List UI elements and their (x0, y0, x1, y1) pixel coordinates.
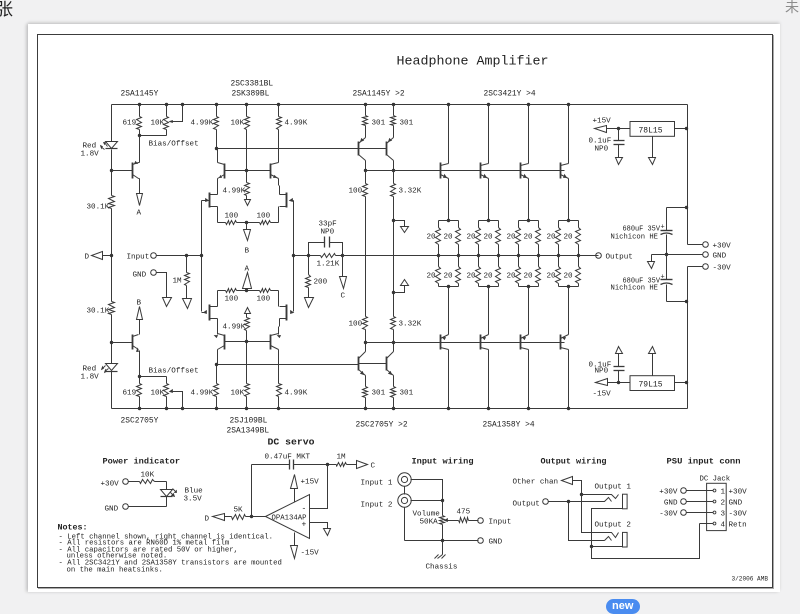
svg-text:Power indicator: Power indicator (103, 457, 181, 467)
resistor 301 #2 (top) (393, 105, 395, 116)
transistor Q2 2SC2705Y (bottom left) (132, 335, 134, 350)
svg-text:-30V: -30V (729, 511, 748, 519)
svg-text:3.5V: 3.5V (184, 496, 203, 504)
svg-text:1: 1 (721, 489, 726, 497)
resistor 10K (power ind) (129, 481, 140, 483)
node on rail: output col 1 top (447, 103, 450, 106)
svg-text:3: 3 (721, 511, 726, 519)
RCA jack 2 (398, 494, 411, 507)
DC jack pin 3 (-30V) (713, 511, 716, 514)
svg-text:1.8V: 1.8V (81, 151, 100, 159)
resistor 200 (to gnd) (308, 256, 310, 275)
transistor 2SA1145Y #1 (pre-driver top) (358, 142, 360, 156)
LED D2 Red 1.8V (bottom) (106, 364, 118, 371)
svg-text:Output wiring: Output wiring (541, 457, 607, 467)
svg-text:20: 20 (524, 234, 534, 242)
svg-text:4: 4 (721, 522, 726, 530)
svg-text:Blue: Blue (185, 488, 204, 496)
svg-text:4.99K: 4.99K (191, 120, 214, 128)
emitter resistor pair 20/20 #3 (top) (527, 219, 530, 222)
svg-text:Headphone Amplifier: Headphone Amplifier (397, 54, 549, 69)
svg-text:20: 20 (524, 273, 534, 281)
terminal circle: -30V (psu input) (681, 510, 687, 516)
svg-text:2SA1358Y >4: 2SA1358Y >4 (483, 421, 535, 430)
wire: input gnd bus (405, 540, 479, 542)
svg-text:619: 619 (123, 120, 137, 128)
headphone jack 1 (tip contact) (582, 495, 619, 499)
svg-text:Other chan: Other chan (513, 479, 559, 487)
svg-text:2SA1145Y >2: 2SA1145Y >2 (353, 90, 405, 99)
svg-text:20: 20 (507, 234, 517, 242)
svg-text:GND: GND (489, 539, 503, 547)
resistor 4.99K #1 (top) (216, 105, 218, 117)
svg-text:B: B (245, 248, 250, 256)
headphone jack 1 (ring contact) (569, 498, 612, 502)
transistor 2SA1145Y #2 (pre-driver top) (386, 142, 388, 156)
svg-text:D: D (85, 254, 90, 262)
svg-text:DC servo: DC servo (268, 437, 315, 448)
chassis ground symbol (442, 541, 444, 555)
node on rail: 10K top (165, 103, 168, 106)
node on rail: 619 bottom (138, 407, 141, 410)
net flag gnd (78L15) (649, 158, 656, 165)
node on rail: 301 #2 top (392, 103, 395, 106)
wire: jack2 signal (411, 500, 443, 502)
svg-text:4.99K: 4.99K (191, 390, 214, 398)
svg-text:B: B (137, 300, 142, 308)
transistor 2SA1358Y #4 (output bottom) (568, 287, 570, 335)
net flag V- small (below 4.99K tail top) (245, 200, 251, 206)
DC jack pin 1 (+30V) (713, 489, 716, 492)
resistor 3.32K (top) (393, 171, 395, 184)
wire: cascode base line (bottom) (225, 341, 271, 343)
wire: psu +30V to pin (687, 490, 714, 492)
terminal circle: Input (wiring) (478, 518, 484, 524)
svg-text:0.47uF MKT: 0.47uF MKT (265, 454, 311, 462)
wire: right vertical +30V rail (687, 105, 689, 245)
svg-text:Nichicon HE: Nichicon HE (611, 234, 659, 242)
svg-text:A: A (245, 266, 250, 274)
svg-text:4.99K: 4.99K (223, 188, 246, 196)
svg-text:2: 2 (721, 500, 726, 508)
emitter resistor pair 20/20 #1 (bottom) (438, 256, 440, 267)
net flag D (left mid) (92, 252, 103, 260)
svg-text:20: 20 (427, 273, 437, 281)
svg-text:2SA1349BL: 2SA1349BL (227, 427, 270, 436)
svg-text:-15V: -15V (593, 391, 612, 399)
JFET J3 2SJ109BL left (bottom) (209, 305, 211, 321)
pot wiper arrow (445, 519, 448, 522)
terminal circle: GND (151, 270, 157, 276)
transistor 2SC3421Y #3 (output top) (528, 105, 530, 164)
node on rail: 4.99K #1 bottom (215, 407, 218, 410)
node on rail: 301 #2 bottom (392, 407, 395, 410)
wire: cascode collector rail y=363.9 (bottom) (217, 364, 359, 366)
trimmer wiper arrow (top) (181, 103, 184, 106)
svg-text:301: 301 (400, 120, 414, 128)
wire: pre-driver base link (bottom) (359, 363, 387, 365)
transistor 2SC3421Y #4 (output top) (568, 105, 570, 164)
svg-text:-30V: -30V (659, 511, 678, 519)
LED D3 Blue 3.5V (166, 482, 168, 490)
node on rail: output col 2 top (487, 103, 490, 106)
resistor 619 (bottom) (139, 397, 141, 409)
wire: right vertical -30V rail (687, 267, 689, 409)
resistor 100 (bottom, VAS load) (363, 317, 368, 330)
svg-text:4.99K: 4.99K (223, 324, 246, 332)
resistor 301 #1 (top) (365, 105, 367, 116)
svg-text:+: + (302, 521, 307, 530)
svg-text:Output 1: Output 1 (595, 484, 632, 492)
wire: output line (mid) (343, 255, 599, 257)
wire: output base drive line (bottom) (366, 342, 565, 344)
svg-text:79L15: 79L15 (639, 381, 663, 390)
svg-text:2SC3421Y >4: 2SC3421Y >4 (484, 90, 536, 99)
svg-text:Chassis: Chassis (426, 564, 458, 572)
trimmer 10K Bias/Offset (bottom) (166, 397, 168, 409)
svg-text:301: 301 (372, 120, 386, 128)
node on rail: output col 4 top (567, 103, 570, 106)
DC jack pin 2 (GND) (713, 500, 716, 503)
headphone jack 2 (tip contact) (593, 533, 619, 538)
wire: jack1 signal (411, 480, 443, 501)
svg-text:30.1K: 30.1K (87, 308, 110, 316)
trimmer 10K Bias/Offset (top) (166, 105, 168, 117)
svg-text:Input: Input (489, 519, 512, 527)
svg-text:100: 100 (349, 321, 363, 329)
svg-text:+30V: +30V (713, 243, 732, 251)
svg-text:Input wiring: Input wiring (412, 457, 474, 467)
transistor Q4 2SC3381BL right (cascode) (270, 164, 272, 179)
emitter resistor pair 20/20 #1 (top) (447, 219, 450, 222)
svg-text:Input 1: Input 1 (361, 480, 393, 488)
net flag gnd (opamp + input) (324, 529, 331, 536)
node on rail: 10K bottom (165, 407, 168, 410)
svg-text:10K: 10K (151, 120, 165, 128)
resistor 4.99K #2 (top) (278, 105, 280, 117)
svg-text:+15V: +15V (301, 479, 320, 487)
svg-text:+30V: +30V (729, 489, 748, 497)
svg-text:+30V: +30V (659, 489, 678, 497)
transistor Q6 2SA1349BL right (cascode bottom) (270, 335, 272, 350)
capacitor 0.1uF NP0 (top) (618, 129, 620, 141)
svg-text:2SC2705Y >2: 2SC2705Y >2 (356, 421, 408, 430)
svg-text:Output: Output (513, 501, 540, 509)
LED D1 Red 1.8V (top) (106, 142, 118, 149)
net flag V- small (392 node top) (392, 219, 395, 222)
net flag gnd (below 200) (305, 298, 314, 308)
resistor 100 left (top) (226, 221, 237, 225)
net flag -15V (opamp) (294, 533, 296, 546)
svg-text:100: 100 (257, 296, 271, 304)
node on rail: 10K #2 bottom (245, 407, 248, 410)
svg-text:Output: Output (606, 254, 633, 262)
resistor 30.1K (top) (109, 196, 115, 209)
svg-text:3.32K: 3.32K (399, 188, 422, 196)
resistor 1M (input bias) (186, 256, 188, 273)
net flag A (below Q1) (139, 182, 141, 194)
DC jack pin 4 (Retn) (713, 522, 716, 525)
svg-text:20: 20 (484, 273, 494, 281)
wire: pre-driver base link (top) (359, 148, 387, 150)
potentiometer Volume 50KA (442, 501, 444, 516)
net flag gnd (below 1M) (183, 299, 192, 309)
resistor 30.1K (bottom) (109, 302, 115, 315)
svg-text:20: 20 (564, 273, 574, 281)
svg-text:1M: 1M (173, 278, 183, 286)
resistor 100 (top, VAS load) (363, 184, 368, 197)
svg-text:619: 619 (123, 390, 137, 398)
transistor 2SC2705Y #1 (pre-driver bottom) (358, 357, 360, 371)
terminal circle: GND (wiring) (478, 538, 484, 544)
svg-text:Output 2: Output 2 (595, 522, 632, 530)
svg-text:100: 100 (225, 296, 239, 304)
connector J1 DC jack body (707, 483, 727, 530)
resistor 4.99K #1 (bottom) (216, 397, 218, 409)
headphone jack 1 (sleeve wire) (592, 509, 623, 549)
svg-text:Notes:: Notes: (58, 524, 88, 533)
svg-text:100: 100 (257, 213, 271, 221)
resistor 10K #2 (top) (246, 105, 248, 117)
wire: 100 below left pre-driver (bottom) (365, 330, 367, 343)
svg-text:20: 20 (467, 234, 477, 242)
emitter resistor pair 20/20 #4 (bottom) (558, 256, 560, 267)
emitter resistor pair 20/20 #2 (bottom) (478, 256, 480, 267)
transistor 2SA1358Y #1 (output bottom) (448, 287, 450, 335)
svg-text:20: 20 (507, 273, 517, 281)
headphone jack 1 (body) (623, 494, 628, 509)
resistor 4.99K #3 (tail, top) (245, 183, 250, 196)
resistor 100 left (bottom) (226, 289, 237, 293)
JFET J1 2SK389BL left (top) (209, 193, 211, 208)
svg-text:3/2006 AMB: 3/2006 AMB (732, 576, 769, 583)
wire: output to jack2 (569, 502, 605, 541)
svg-text:680uF 35V: 680uF 35V (623, 226, 661, 234)
wire: 619-10K junction (top) (140, 135, 167, 137)
svg-text:+30V: +30V (101, 481, 120, 489)
wire: jack grounds (404, 487, 406, 495)
node: LED/base junction (110, 169, 113, 172)
terminal circle: -30V (688, 266, 703, 268)
svg-text:NP0: NP0 (595, 368, 609, 376)
svg-text:GND: GND (105, 506, 119, 514)
resistor 1.21K (feedback) (294, 255, 321, 257)
svg-text:100: 100 (349, 188, 363, 196)
net flag C (servo) (357, 461, 368, 469)
svg-text:301: 301 (372, 390, 386, 398)
headphone jack 2 (body) (623, 532, 628, 547)
net flag C (below 1.21K right node) (342, 256, 344, 277)
svg-text:C: C (341, 293, 346, 301)
terminal circle: GND (power ind) (129, 506, 167, 508)
svg-text:Bias/Offset: Bias/Offset (149, 141, 199, 149)
resistor 10K #2 (bottom) (246, 397, 248, 409)
svg-text:1.21K: 1.21K (317, 261, 340, 269)
svg-text:5K: 5K (234, 507, 244, 515)
wire: output base drive line (top) (366, 170, 565, 172)
svg-text:78L15: 78L15 (639, 127, 663, 136)
wire: sleeve bus to Retn (592, 524, 700, 559)
wire: pin 4 stub (700, 523, 714, 525)
svg-text:2SA1145Y: 2SA1145Y (121, 90, 159, 99)
net flag gnd (below 0.1uF top) (616, 158, 623, 165)
resistor 301 #1 (bottom) (365, 398, 367, 409)
wire: 100 below left pre-driver (top) (365, 171, 367, 184)
transistor 2SC2705Y #2 (pre-driver bottom) (386, 357, 388, 371)
capacitor 0.47uF (servo) (252, 464, 290, 466)
JFET J4 2SJ109BL right (bottom) (286, 305, 288, 321)
svg-text:NP0: NP0 (595, 146, 609, 154)
svg-text:20: 20 (427, 234, 437, 242)
wire: JFET source network (top) (217, 207, 219, 223)
svg-text:Nichicon HE: Nichicon HE (611, 285, 659, 293)
op-amp U3 OPA134AP (266, 495, 310, 539)
capacitor 0.1uF NP0 (bottom) (618, 371, 620, 383)
svg-text:Input: Input (127, 254, 150, 262)
svg-text:50KA: 50KA (420, 519, 439, 527)
regulator U1 78L15 (630, 122, 675, 137)
wire: left column vertical (111, 105, 113, 142)
svg-text:2SK389BL: 2SK389BL (232, 90, 270, 99)
wire: servo feedback riser (251, 465, 253, 517)
net flag B (below 100-100 top) (246, 223, 248, 230)
resistor 4.99K #2 (bottom) (278, 397, 280, 409)
svg-text:301: 301 (400, 390, 414, 398)
svg-text:10K: 10K (151, 390, 165, 398)
node on rail: 619 top (138, 103, 141, 106)
svg-text:GND: GND (729, 500, 743, 508)
svg-text:Retn: Retn (729, 522, 747, 530)
svg-text:200: 200 (314, 279, 328, 287)
svg-text:Bias/Offset: Bias/Offset (149, 368, 199, 376)
svg-text:20: 20 (547, 234, 557, 242)
svg-text:-: - (302, 505, 307, 514)
wire: other-chan to jack2 (582, 495, 593, 533)
svg-text:1M: 1M (337, 454, 347, 462)
svg-text:3.32K: 3.32K (399, 321, 422, 329)
capacitor 680uF 35V Nichicon HE (top) (685, 206, 688, 209)
terminal circle: Output (596, 253, 602, 259)
resistor 619 (top) (139, 105, 141, 117)
resistor 301 #2 (bottom) (393, 398, 395, 409)
svg-text:30.1K: 30.1K (87, 204, 110, 212)
svg-text:2SC2705Y: 2SC2705Y (121, 417, 159, 426)
emitter resistor pair 20/20 #3 (bottom) (518, 256, 520, 267)
svg-text:-30V: -30V (713, 265, 732, 273)
JFET J2 2SK389BL right (top) (286, 193, 288, 208)
net flag gnd (psu) (651, 255, 653, 262)
resistor 100 right (bottom) (247, 290, 260, 292)
resistor 100 right (top) (247, 222, 260, 224)
svg-text:20: 20 (444, 273, 454, 281)
svg-text:GND: GND (133, 272, 147, 280)
resistor 4.99K #3 (tail, bottom) (245, 318, 250, 331)
svg-text:Red: Red (83, 143, 97, 151)
wire: 392 vertical mid link (393, 221, 395, 293)
capacitor 680uF 35V Nichicon HE (bottom) (666, 255, 668, 280)
svg-text:20: 20 (484, 234, 494, 242)
svg-text:475: 475 (457, 509, 471, 517)
terminal circle: Input (151, 253, 157, 259)
node on rail: 4.99K #1 (215, 103, 218, 106)
svg-text:10K: 10K (231, 120, 245, 128)
terminal circle: GND (psu input) (681, 499, 687, 505)
wire: servo non-inverting input (310, 523, 328, 529)
resistor 3.32K (bottom) (393, 330, 395, 343)
transistor 2SA1358Y #3 (output bottom) (528, 287, 530, 335)
svg-text:Volume: Volume (413, 511, 441, 519)
wire: left JFET gate riser to input (201, 201, 203, 312)
terminal circle: +30V (psu input) (681, 488, 687, 494)
net flag B (above Q2) (139, 320, 141, 331)
net flag V+ small (392 node bottom) (392, 291, 395, 294)
svg-text:20: 20 (564, 234, 574, 242)
wire: cascode collector rail y=147.7 (217, 148, 359, 150)
transistor Q1 2SA1145Y (top left) (132, 163, 134, 179)
wire: 619-10K junction (bottom) (140, 376, 167, 378)
headphone jack 2 (ring contact) (605, 537, 612, 541)
wire: 79L15 gnd pin (652, 354, 654, 376)
emitter resistor pair 20/20 #4 (top) (567, 219, 570, 222)
svg-text:2SJ109BL: 2SJ109BL (230, 417, 268, 426)
svg-text:DC Jack: DC Jack (700, 476, 731, 484)
net flag A (above 100-100 bottom) (246, 289, 248, 291)
net flag gnd (above 0.1uF bottom) (616, 347, 623, 354)
svg-text:33pF: 33pF (319, 221, 338, 229)
wire: +30V top rail (112, 104, 688, 106)
node on rail: 301 #1 top (364, 103, 367, 106)
wire: psu gnd node (652, 254, 703, 256)
node on rail: 4.99K #2 bottom (277, 407, 280, 410)
node: bottom LED/base junction (110, 341, 113, 344)
trimmer wiper arrow (bottom) (181, 407, 184, 410)
svg-text:4.99K: 4.99K (285, 390, 308, 398)
svg-text:on the main heatsinks.: on the main heatsinks. (67, 567, 163, 575)
transistor 2SC3421Y #2 (output top) (488, 105, 490, 164)
wire: 78L15 gnd pin (652, 137, 654, 158)
transistor 2SC3421Y #1 (output top) (448, 105, 450, 164)
svg-text:+: + (661, 274, 665, 282)
svg-text:D: D (205, 516, 210, 524)
terminal circle: GND (psu) (703, 252, 709, 258)
svg-text:NP0: NP0 (321, 229, 335, 237)
node on rail: 301 #1 bottom (364, 407, 367, 410)
svg-text:GND: GND (664, 500, 678, 508)
svg-text:2SC3381BL: 2SC3381BL (231, 80, 274, 89)
wire: JFET source network (bottom) (217, 291, 219, 307)
svg-text:4.99K: 4.99K (285, 120, 308, 128)
wire: psu GND to pin (687, 501, 714, 503)
svg-text:-15V: -15V (301, 550, 320, 558)
svg-text:1.8V: 1.8V (81, 374, 100, 382)
wire: cascode base line (top) (225, 170, 271, 172)
svg-text:10K: 10K (141, 472, 155, 480)
wire: servo inverting input (310, 465, 328, 509)
svg-text:+15V: +15V (593, 118, 612, 126)
wire: input line (157, 255, 202, 257)
net flag V+ small (above 4.99K tail bottom) (245, 308, 251, 314)
net flag gnd (79L15) (649, 347, 656, 354)
transistor Q3 2SC3381BL left (cascode) (224, 164, 226, 179)
svg-text:PSU input conn: PSU input conn (667, 457, 741, 467)
svg-text:A: A (137, 210, 142, 218)
net flag gnd (below GND stub) (163, 298, 172, 307)
svg-text:100: 100 (225, 213, 239, 221)
svg-text:20: 20 (444, 234, 454, 242)
node on rail: 4.99K #2 (277, 103, 280, 106)
terminal circle: +30V (688, 244, 703, 246)
RCA jack 1 (398, 473, 411, 486)
